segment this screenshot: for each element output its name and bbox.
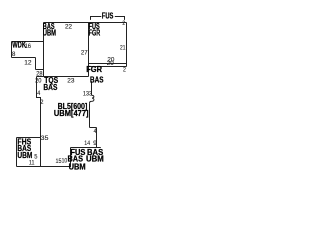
wire: FUS bracket left half	[91, 17, 102, 20]
svg-text:4: 4	[94, 128, 97, 135]
wire: hook jog in right outline	[90, 95, 94, 103]
svg-text:UBM: UBM	[69, 163, 86, 172]
svg-text:FGR: FGR	[89, 29, 101, 38]
wire: FUS bracket right half	[115, 17, 125, 20]
svg-text:FUS: FUS	[102, 12, 114, 21]
svg-text:BAS: BAS	[90, 75, 104, 84]
svg-text:BAS: BAS	[43, 83, 57, 92]
svg-text:10: 10	[62, 157, 68, 164]
wire: right outline vertical middle	[89, 103, 91, 127]
wire: main box left edge	[43, 23, 45, 77]
wire: bottom edge of main box / top of TQS row	[37, 76, 89, 78]
wire: top edge of main BAS/UBM box and FUS/FGR box	[44, 22, 127, 24]
svg-text:11: 11	[29, 159, 35, 166]
wire: shared vertical edge between BAS/UBM and FUS/FGR	[88, 23, 90, 77]
wire: WDK step bottom edge	[36, 69, 44, 71]
svg-text:16: 16	[25, 43, 32, 50]
svg-text:2: 2	[123, 66, 126, 73]
svg-text:23: 23	[67, 77, 74, 84]
wire: FHS box right edge continuation	[40, 138, 42, 167]
svg-text:27: 27	[81, 49, 88, 56]
svg-text:35: 35	[41, 135, 49, 142]
svg-text:14: 14	[84, 140, 90, 147]
svg-text:9: 9	[93, 140, 97, 147]
wire: FUS/FGR box bottom line	[89, 63, 127, 65]
svg-text:8: 8	[12, 51, 16, 58]
wire: bottom edge of FHS box and lower section	[17, 166, 72, 168]
wire: right outline step horizontal	[90, 127, 97, 129]
svg-text:UBM: UBM	[86, 155, 104, 164]
wire: FUS/FGR box right edge	[126, 23, 128, 67]
wire: WDK bottom edge	[12, 57, 36, 59]
svg-text:UBM: UBM	[43, 29, 56, 38]
svg-text:4: 4	[37, 90, 40, 97]
svg-text:22: 22	[65, 23, 72, 30]
svg-text:21: 21	[120, 45, 126, 52]
wire: left outline of TQS section with jog	[37, 77, 41, 138]
wire: right outline vertical lower	[96, 128, 98, 148]
svg-text:20: 20	[35, 77, 42, 84]
wire: WDK right step vertical	[35, 58, 37, 70]
wire: right outline vertical below BAS	[91, 81, 93, 95]
wire: lower-middle box top edge	[71, 147, 101, 149]
svg-text:133: 133	[83, 91, 92, 98]
svg-text:2: 2	[40, 99, 43, 106]
svg-text:20: 20	[107, 60, 114, 67]
wire: WDK left edge	[11, 42, 13, 58]
svg-text:UBM[477]: UBM[477]	[54, 109, 89, 118]
wire: FGR strip lower line	[89, 66, 127, 68]
wire: FHS box left edge	[16, 138, 18, 167]
svg-text:5: 5	[34, 153, 37, 160]
svg-text:FGR: FGR	[86, 65, 102, 74]
wire: lower-middle box left edge	[70, 148, 72, 167]
svg-text:12: 12	[24, 59, 32, 66]
wire: WDK top edge	[12, 41, 44, 43]
svg-text:2: 2	[122, 20, 125, 27]
wire: FHS box top edge	[17, 137, 41, 139]
